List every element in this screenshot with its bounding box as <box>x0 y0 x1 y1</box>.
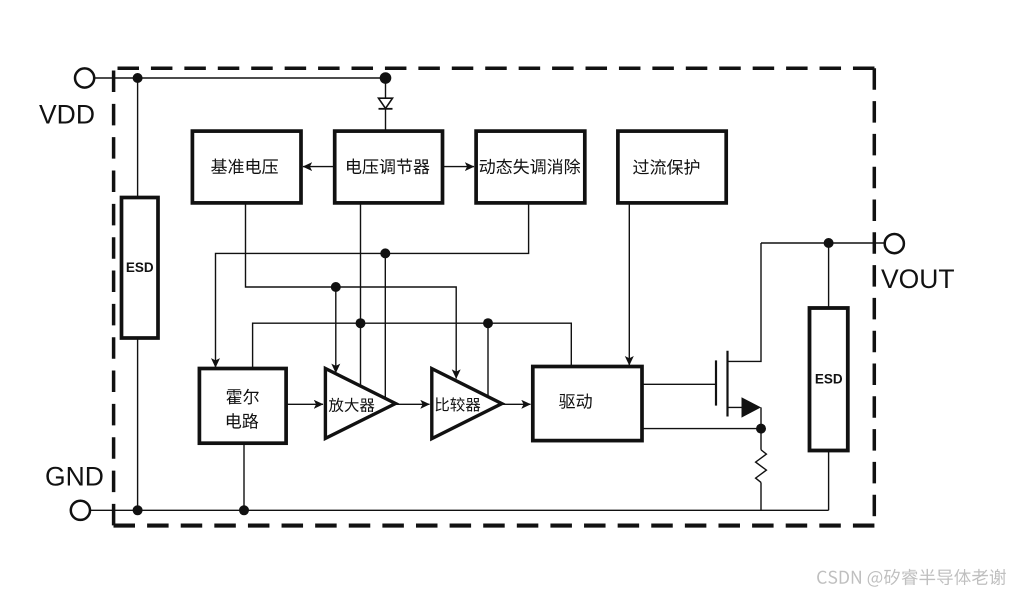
node: source/resistor junction <box>756 424 766 434</box>
Q1 channel bar <box>726 351 728 417</box>
wire: H3 branch down to comparator <box>487 323 489 396</box>
GND terminal pad <box>71 501 90 520</box>
wire: drain to VOUT <box>761 242 885 244</box>
node: H1/amplifier branch <box>380 248 390 258</box>
Q1 source lead <box>728 406 745 408</box>
node: ESD1/GND junction <box>133 505 143 515</box>
wire GND rail <box>90 509 828 511</box>
svg-text:ESD: ESD <box>815 372 843 387</box>
label 动态失调消除 <box>480 159 581 175</box>
node: VOUT/ESD2 junction <box>824 238 834 248</box>
arrow: comparator to driver <box>502 403 531 405</box>
wire ESD2 to GND rail <box>828 451 830 511</box>
svg-text:ESD: ESD <box>126 260 154 275</box>
wire: driver to MOSFET gate <box>642 383 716 385</box>
VOUT terminal pad <box>885 234 904 253</box>
wire: offset-cancel down, left along H1, into hall circuit <box>216 203 529 367</box>
wire ESD1 to GND rail <box>137 338 139 510</box>
label 比较器 <box>436 397 481 411</box>
wire: H1 branch down to amplifier <box>384 253 386 398</box>
block: reference voltage 基准电压 <box>192 131 301 203</box>
arrow: H2 into amplifier <box>335 287 337 373</box>
wire VDD rail <box>94 77 385 79</box>
node: VDD/ESD junction <box>133 73 143 83</box>
wire: regulator bias down to amplifier <box>360 203 362 386</box>
arrow: regulator to reference <box>303 166 335 168</box>
block: overcurrent protection 过流保护 <box>618 131 726 203</box>
wire VDD to ESD1 <box>137 78 139 198</box>
block: hall circuit 霍尔电路 <box>199 369 286 444</box>
label 过流保护 <box>633 159 699 175</box>
arrow: regulator to offset-cancel <box>443 166 475 168</box>
diode D1 (from VDD rail into regulator) <box>385 78 387 98</box>
block: dynamic offset cancellation 动态失调消除 <box>476 131 585 203</box>
node: H3/comparator branch <box>483 318 493 328</box>
label 电路 <box>227 413 258 429</box>
label 基准电压 <box>211 159 278 175</box>
svg-text:GND: GND <box>45 462 104 492</box>
label 电压调节器 <box>347 159 429 175</box>
chip boundary (dashed package outline) <box>118 67 875 71</box>
block: voltage regulator 电压调节器 <box>335 131 443 203</box>
node: VDD/diode junction <box>380 72 392 84</box>
ESD cell U-ESD2 (output) <box>828 243 830 308</box>
transistor Q1 (output NMOS) gate bar <box>715 360 717 405</box>
wire: driver to source node <box>642 428 761 430</box>
comparator 比较器 <box>432 369 502 439</box>
arrow: amplifier to comparator <box>396 403 430 405</box>
label 放大器 <box>329 398 375 412</box>
svg-text:VOUT: VOUT <box>881 264 955 294</box>
svg-text:VDD: VDD <box>39 100 95 130</box>
wire: reference down to bias rail H2 and into comparator <box>246 203 457 379</box>
label 霍尔 <box>226 389 258 405</box>
resistor R1 (pull-down) <box>760 429 762 450</box>
label 驱动 <box>559 394 592 409</box>
arrow: overcurrent protection down to driver <box>628 203 630 365</box>
Q1 drain lead <box>728 243 762 361</box>
Q1 source arrow <box>742 397 762 417</box>
node: hall/GND junction <box>239 505 249 515</box>
node: H3/regulator junction <box>356 318 366 328</box>
block: driver 驱动 <box>533 367 642 441</box>
wire: bias rail H3 hall-to-driver <box>253 323 572 368</box>
node: H2/amplifier branch <box>331 282 341 292</box>
VDD terminal pad <box>75 68 94 87</box>
op-amp: amplifier 放大器 <box>325 369 395 439</box>
watermark CSDN @matrix <box>817 569 1006 587</box>
arrow: hall to amplifier <box>286 403 323 405</box>
ESD cell U-ESD1 (input) <box>122 198 159 339</box>
wire: hall to GND rail <box>243 443 245 510</box>
